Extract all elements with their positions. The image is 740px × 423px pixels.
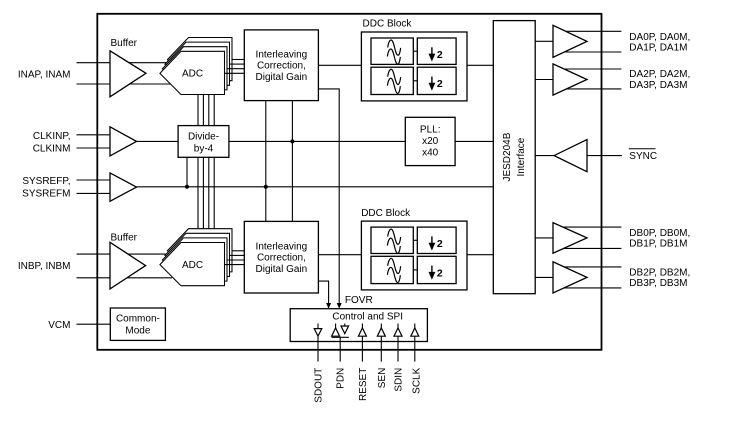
- svg-text:SYNC: SYNC: [629, 151, 657, 162]
- svg-text:Divide-: Divide-: [188, 132, 219, 143]
- svg-text:by-4: by-4: [194, 144, 214, 155]
- svg-text:SYSREFP,: SYSREFP,: [22, 176, 70, 187]
- svg-text:2: 2: [437, 238, 443, 250]
- svg-text:ADC: ADC: [182, 69, 203, 80]
- svg-text:JESD204B: JESD204B: [502, 132, 513, 181]
- svg-text:2: 2: [437, 49, 443, 61]
- svg-text:Interface: Interface: [516, 137, 527, 176]
- svg-text:CLKINP,: CLKINP,: [33, 131, 71, 142]
- svg-text:ADC: ADC: [182, 260, 203, 271]
- svg-text:SCLK: SCLK: [411, 367, 422, 393]
- svg-text:SEN: SEN: [377, 368, 388, 389]
- svg-text:DB0P, DB0M,: DB0P, DB0M,: [629, 228, 690, 239]
- svg-text:Common-: Common-: [116, 314, 160, 325]
- svg-text:Correction,: Correction,: [257, 61, 306, 72]
- svg-text:DB3P, DB3M: DB3P, DB3M: [629, 278, 687, 289]
- svg-text:SDIN: SDIN: [394, 368, 405, 392]
- svg-text:x40: x40: [422, 147, 439, 158]
- svg-text:FOVR: FOVR: [345, 295, 373, 306]
- svg-text:DDC Block: DDC Block: [363, 18, 413, 29]
- svg-text:RESET: RESET: [358, 368, 369, 401]
- svg-text:Interleaving: Interleaving: [256, 49, 308, 60]
- svg-text:DB1P, DB1M: DB1P, DB1M: [629, 239, 687, 250]
- svg-text:Buffer: Buffer: [111, 232, 138, 243]
- svg-text:INBP, INBM: INBP, INBM: [18, 261, 71, 272]
- svg-text:DA3P, DA3M: DA3P, DA3M: [629, 80, 687, 91]
- svg-text:Mode: Mode: [125, 326, 150, 337]
- svg-text:Buffer: Buffer: [111, 38, 138, 49]
- svg-text:x20: x20: [422, 136, 439, 147]
- svg-text:DB2P, DB2M,: DB2P, DB2M,: [629, 268, 690, 279]
- svg-text:DA2P, DA2M,: DA2P, DA2M,: [629, 69, 690, 80]
- svg-text:Digital Gain: Digital Gain: [256, 264, 308, 275]
- svg-text:Digital Gain: Digital Gain: [256, 72, 308, 83]
- svg-text:Interleaving: Interleaving: [256, 241, 308, 252]
- svg-text:SYSREFM: SYSREFM: [22, 189, 70, 200]
- svg-text:Control and SPI: Control and SPI: [332, 312, 403, 323]
- svg-text:PDN: PDN: [336, 368, 347, 389]
- svg-text:VCM: VCM: [48, 320, 70, 331]
- svg-text:2: 2: [437, 267, 443, 279]
- svg-text:DDC Block: DDC Block: [361, 208, 411, 219]
- svg-text:Correction,: Correction,: [257, 253, 306, 264]
- svg-text:DA0P, DA0M,: DA0P, DA0M,: [629, 32, 690, 43]
- svg-text:SDOUT: SDOUT: [314, 368, 325, 403]
- svg-text:DA1P, DA1M: DA1P, DA1M: [629, 43, 687, 54]
- svg-text:2: 2: [437, 78, 443, 90]
- svg-text:CLKINM: CLKINM: [33, 144, 71, 155]
- svg-text:INAP, INAM: INAP, INAM: [18, 69, 71, 80]
- svg-text:PLL:: PLL:: [420, 124, 441, 135]
